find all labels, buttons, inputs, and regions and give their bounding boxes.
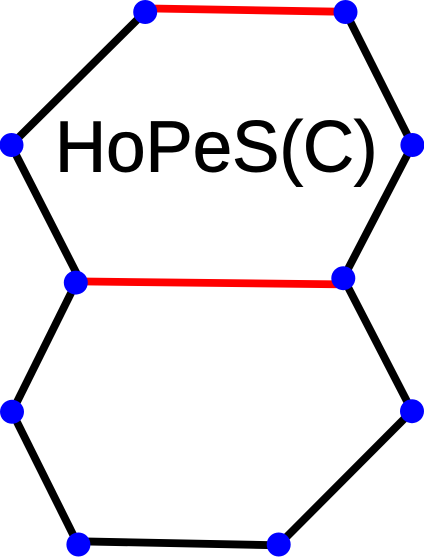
edge lower-hexagon bottom side xyxy=(78,541,279,545)
node lower-right xyxy=(400,399,424,423)
edge upper-hexagon top-right side xyxy=(346,12,413,145)
edge upper-hexagon bottom-left side xyxy=(11,145,81,282)
edge lower-hexagon top-right side xyxy=(343,278,412,411)
node upper-right xyxy=(400,133,424,157)
node middle-right xyxy=(331,266,355,290)
node lower-left xyxy=(0,400,24,424)
edge lower-hexagon bottom-right side xyxy=(279,411,412,545)
edge red middle (critical edge shared between hexagons) xyxy=(76,281,343,284)
edge red top (critical edge of upper hexagon) xyxy=(145,8,346,11)
node bottom-left xyxy=(66,533,90,557)
svg-text:HoPeS(C): HoPeS(C) xyxy=(55,107,378,188)
edge upper-hexagon bottom-right side xyxy=(343,145,412,278)
edge upper-hexagon top-left side xyxy=(11,12,145,145)
node top-left xyxy=(133,0,157,24)
node top-right xyxy=(334,0,358,24)
node bottom-right xyxy=(267,533,291,557)
edge lower-hexagon bottom-left side xyxy=(12,412,78,545)
node middle-left xyxy=(64,271,88,295)
node upper-left xyxy=(0,133,24,157)
edge lower-hexagon top-left side xyxy=(12,283,76,412)
